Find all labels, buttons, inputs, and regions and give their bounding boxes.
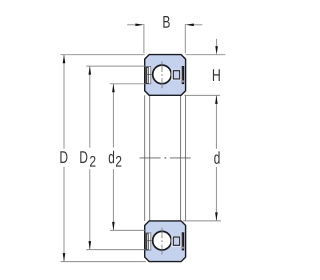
- label 2 of D2: [90, 156, 95, 167]
- D top extension: [61, 54, 145, 56]
- left bore silhouette: [149, 95, 151, 221]
- D2 top extension: [86, 65, 144, 67]
- label H: [213, 69, 220, 81]
- label D: [60, 151, 67, 163]
- label 2 of d2: [116, 156, 121, 167]
- right outer silhouette: [185, 95, 187, 221]
- D2 bottom extension: [86, 249, 144, 251]
- B right extension: [184, 24, 186, 53]
- d bottom extension: [183, 220, 221, 222]
- H top extension: [186, 54, 226, 56]
- d2 top extension: [110, 83, 145, 85]
- B dimension right arrow: [194, 24, 203, 26]
- label D of D2: [80, 151, 87, 163]
- label B: [163, 16, 169, 28]
- silhouette lines connecting sections: [145, 95, 186, 221]
- bottom bearing section: [145, 221, 186, 262]
- left outer silhouette: [144, 95, 146, 221]
- label d: [214, 151, 219, 164]
- d dimension line: [215, 95, 217, 220]
- d2 bottom extension: [110, 229, 145, 231]
- d top extension: [184, 94, 220, 96]
- main horizontal centerline: [140, 157, 191, 159]
- B dimension left arrow: [127, 24, 136, 26]
- H dimension top arrow: [216, 39, 218, 47]
- D bottom extension: [61, 261, 147, 263]
- B left extension: [143, 24, 145, 53]
- top bearing section: [145, 55, 186, 96]
- label d of d2: [109, 151, 114, 164]
- d2 dimension line: [112, 84, 114, 231]
- extension lines: [61, 24, 226, 262]
- D2 dimension line: [89, 66, 91, 250]
- right bore silhouette: [180, 95, 182, 221]
- D dimension line: [63, 55, 65, 262]
